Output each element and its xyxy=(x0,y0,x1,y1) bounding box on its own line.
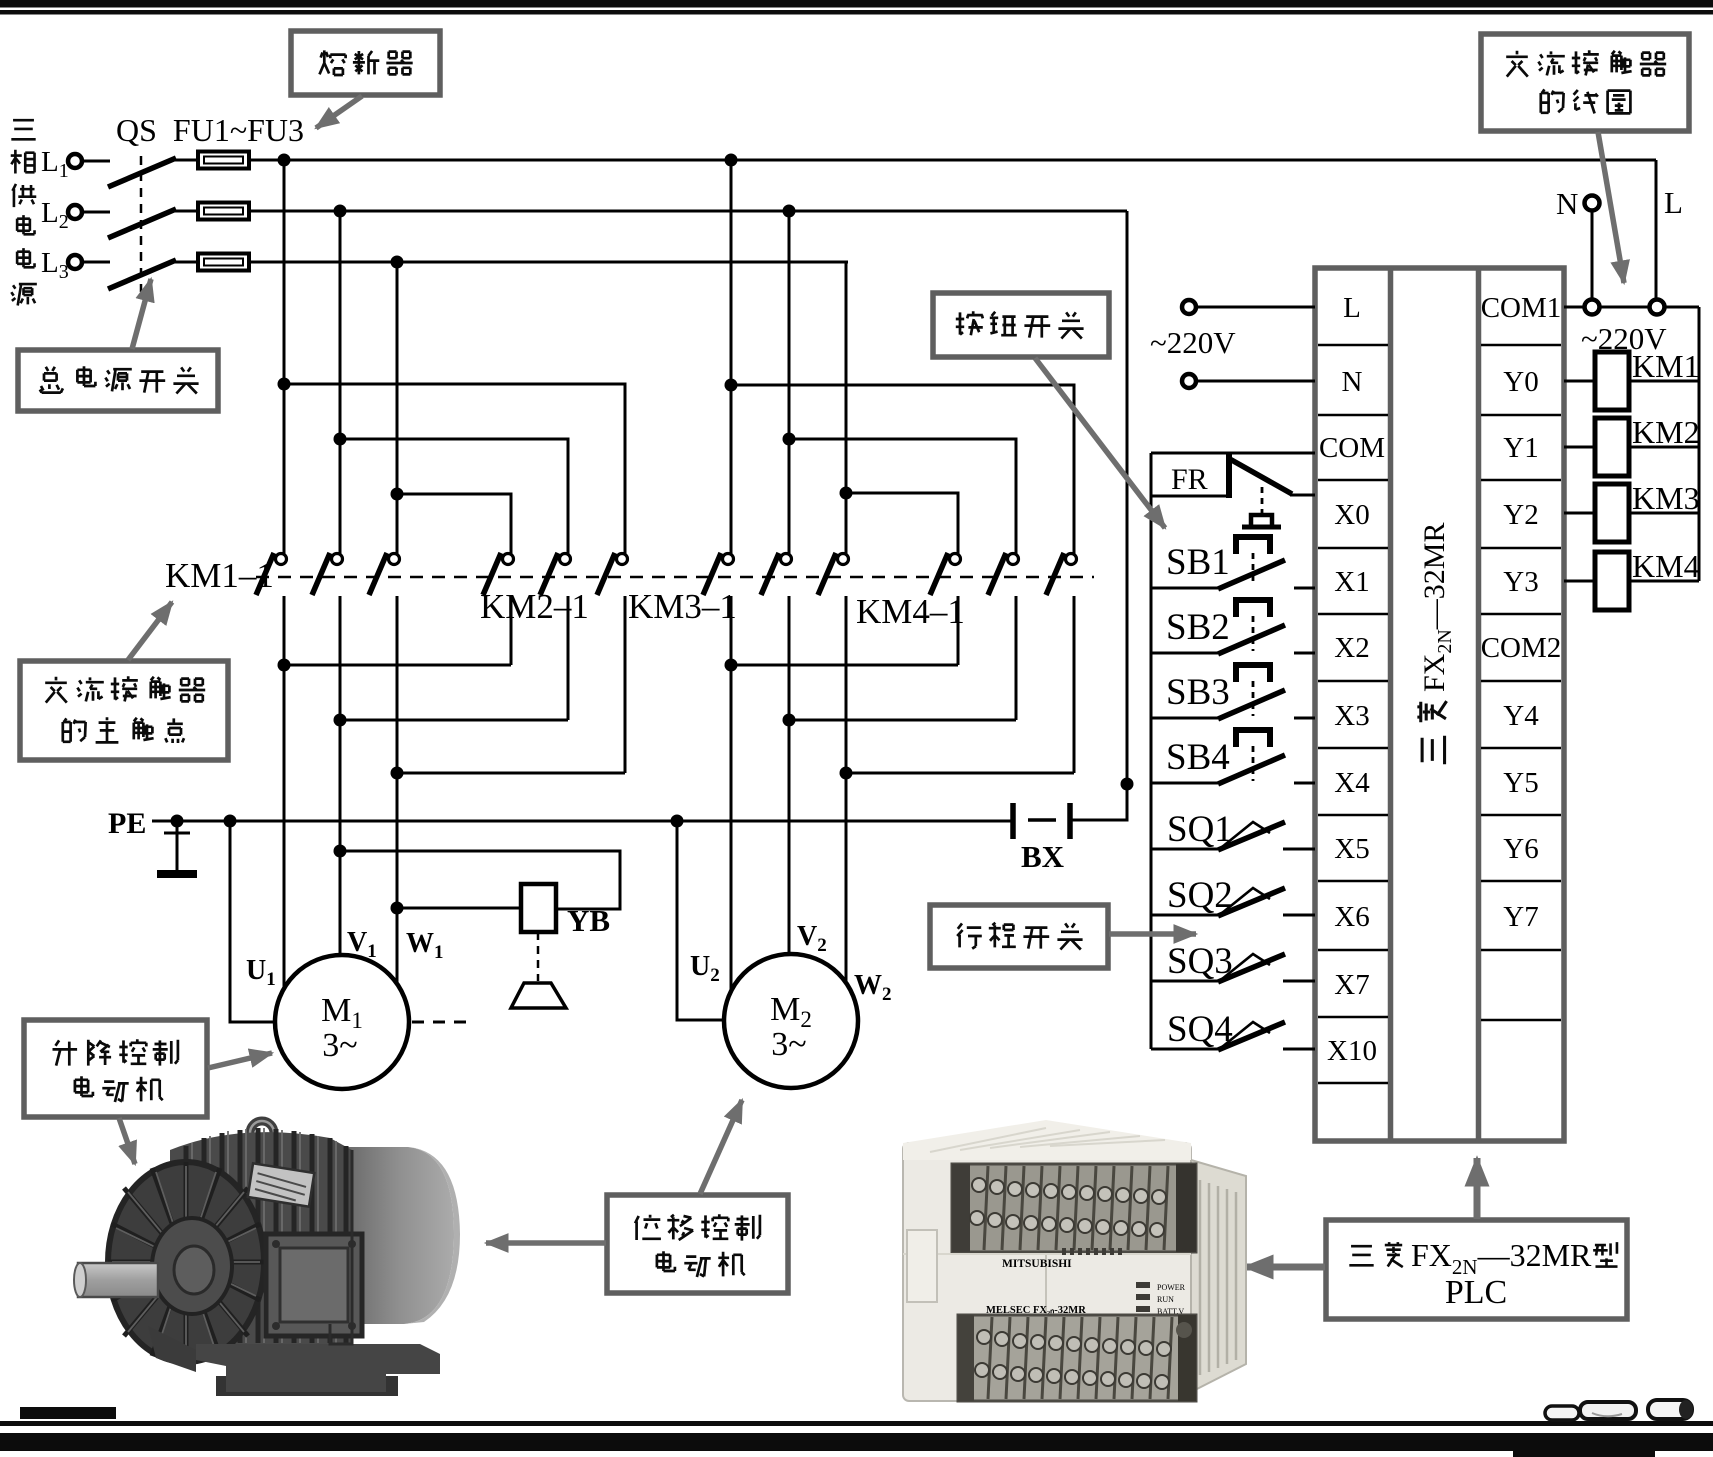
wire link M1 phase B xyxy=(340,719,568,722)
bottom black bar xyxy=(0,1433,1713,1451)
arrow fuse callout xyxy=(316,96,362,128)
svg-text:X10: X10 xyxy=(1327,1035,1377,1067)
junction PE M2 xyxy=(671,815,684,828)
button SB2 link dashed xyxy=(1252,616,1255,651)
contactor linkage dashed line xyxy=(256,576,1094,579)
callout box contactor coil xyxy=(1481,34,1689,131)
arrow contactor coil callout xyxy=(1598,132,1624,283)
terminal COM1 L circle xyxy=(1650,300,1665,315)
PLC photo top terminal strip xyxy=(952,1164,1196,1252)
chalk piece 2 xyxy=(1580,1402,1636,1419)
wire COM to bus xyxy=(1151,452,1315,455)
svg-text:X0: X0 xyxy=(1334,499,1369,531)
wire PE to M1 frame xyxy=(230,821,277,1022)
wire Y1 to KM2 xyxy=(1564,446,1595,449)
wire Y3 to KM4 xyxy=(1564,580,1595,583)
label text hoist motor line1 升降控制 xyxy=(53,1040,78,1065)
wire L2 drop to KM1-1 xyxy=(339,211,342,554)
relay FR post xyxy=(1226,454,1232,498)
svg-text:X5: X5 xyxy=(1334,833,1369,865)
svg-text:X2: X2 xyxy=(1334,632,1369,664)
switch QS pole 1 blade xyxy=(108,158,176,187)
terminal L3 xyxy=(68,255,82,269)
button SB1 blade xyxy=(1218,560,1285,589)
wire L2 terminal stub xyxy=(82,211,110,214)
brake YB armature dashed xyxy=(537,932,540,981)
wire link M1 phase C xyxy=(397,772,625,775)
limit contact BX middle dash xyxy=(1028,818,1056,822)
fuse FU3 xyxy=(198,254,249,271)
wire PE to M2 frame xyxy=(677,821,725,1020)
wire FR to X0 xyxy=(1290,494,1315,497)
motor photo terminal box xyxy=(266,1234,362,1336)
wire crossover M1 phase B xyxy=(340,439,568,554)
callout box PLC type xyxy=(1326,1220,1627,1319)
wire crossover M2 phase A xyxy=(731,385,1074,554)
wire BX to L2 riser xyxy=(1072,211,1127,820)
callout box push buttons xyxy=(933,293,1109,357)
coil KM1 xyxy=(1595,352,1629,410)
brake YB shoe xyxy=(511,983,566,1008)
svg-text:N: N xyxy=(1556,186,1578,221)
wire 220V N to PLC xyxy=(1196,380,1315,383)
svg-text:FR: FR xyxy=(1171,463,1208,496)
arrow displacement motor callout to photo xyxy=(486,1240,606,1246)
arrow hoist motor callout to symbol xyxy=(208,1053,272,1068)
wire Y2 to KM3 xyxy=(1564,512,1595,515)
bottom bar tab xyxy=(1513,1449,1655,1457)
wire below KM2-1 pole3 xyxy=(624,596,627,773)
contact KM3-1 pole2 xyxy=(781,554,792,565)
wire N drop xyxy=(1591,211,1594,300)
label text displacement motor line2 电动机 xyxy=(657,1251,675,1271)
motor M2 circle xyxy=(724,954,858,1088)
callout box displacement motor xyxy=(607,1195,788,1293)
switch SQ4 blade xyxy=(1218,1022,1285,1050)
motor photo nameplate xyxy=(248,1163,315,1206)
wire below KM3-1 pole2 xyxy=(788,596,791,954)
motor photo front fin disc xyxy=(108,1162,264,1362)
svg-text:Y4: Y4 xyxy=(1503,700,1539,732)
junction PE M1 xyxy=(224,815,237,828)
label text three-phase supply 三相供电电源 vertical xyxy=(11,120,35,139)
PLC output column row lines xyxy=(1481,345,1561,1020)
arrow PLC type callout to table xyxy=(1474,1158,1481,1219)
label text PLC type line1 三菱 and 型 xyxy=(1349,1246,1373,1265)
arrow PLC type callout to photo xyxy=(1245,1264,1325,1271)
button SB1 actuator xyxy=(1236,537,1270,554)
label text displacement motor line1 位移控制 xyxy=(635,1215,661,1240)
svg-text:Y6: Y6 xyxy=(1503,833,1538,865)
wire L1 terminal stub xyxy=(82,160,110,163)
svg-text:KM4–1: KM4–1 xyxy=(856,592,965,631)
label text hoist motor line2 电动机 xyxy=(75,1076,93,1096)
callout box travel switches xyxy=(930,905,1108,968)
button SB4 link dashed xyxy=(1252,746,1255,781)
svg-text:Y2: Y2 xyxy=(1503,499,1538,531)
ground PE symbol xyxy=(164,821,190,871)
svg-text:RUN: RUN xyxy=(1157,1295,1174,1304)
arrow contactor contacts callout xyxy=(128,602,172,660)
contact KM1-1 pole1 xyxy=(276,554,287,565)
junction YB W1 tap xyxy=(391,902,404,915)
button SB3 blade xyxy=(1218,690,1285,719)
junction BX riser xyxy=(1121,778,1134,791)
junction crossover C1 xyxy=(391,488,404,501)
svg-text:SB2: SB2 xyxy=(1166,607,1230,648)
junction link A2 xyxy=(725,659,738,672)
junction crossover A1 xyxy=(278,378,291,391)
arrow main switch callout xyxy=(132,279,151,349)
svg-text:FX2N—32MR: FX2N—32MR xyxy=(1418,523,1456,693)
terminal COM1 N circle xyxy=(1585,300,1600,315)
label text contactor contacts line2 的主触点 xyxy=(63,718,86,741)
wire SB1 to X1 xyxy=(1294,587,1315,590)
junction PE ground xyxy=(171,815,184,828)
svg-text:PLC: PLC xyxy=(1445,1274,1507,1311)
wire link M1 phase A xyxy=(284,664,511,667)
wire QS to FU1 xyxy=(174,159,198,162)
wire bus L1 xyxy=(249,159,1656,162)
svg-text:SQ3: SQ3 xyxy=(1167,941,1233,982)
chalk piece 3 xyxy=(1648,1400,1693,1419)
svg-text:SB1: SB1 xyxy=(1166,542,1230,583)
wire SQ1 left xyxy=(1151,848,1218,851)
wire SQ3 left xyxy=(1151,980,1218,983)
switch QS pole 2 blade xyxy=(108,209,176,238)
terminal L2 xyxy=(68,205,82,219)
terminal L1 xyxy=(68,154,82,168)
svg-text:X7: X7 xyxy=(1334,969,1369,1001)
svg-text:SQ4: SQ4 xyxy=(1167,1009,1233,1050)
wire below KM3-1 pole3 xyxy=(845,596,848,983)
label text main switch 总电源开关 xyxy=(40,367,63,393)
chalk piece 1 xyxy=(1545,1406,1579,1420)
wire link M2 phase A xyxy=(731,664,958,667)
wire coil return bus xyxy=(1698,307,1701,581)
svg-text:MITSUBISHI: MITSUBISHI xyxy=(1002,1258,1072,1270)
callout box hoist motor xyxy=(24,1020,207,1117)
svg-text:POWER: POWER xyxy=(1157,1283,1186,1292)
wire crossover M2 phase B xyxy=(789,439,1016,554)
junction link A1 xyxy=(278,659,291,672)
wire L1 drop to KM3-1 xyxy=(730,160,733,554)
brake YB tap wire W1 xyxy=(397,907,521,910)
svg-text:SQ2: SQ2 xyxy=(1167,875,1233,916)
motor photo shaft xyxy=(78,1263,158,1297)
wire bus L3 xyxy=(249,261,848,264)
junction crossover C2 xyxy=(840,487,853,500)
switch QS pole 3 blade xyxy=(108,260,176,289)
fuse FU2 xyxy=(198,203,249,220)
svg-text:Y7: Y7 xyxy=(1503,901,1538,933)
wire L3 drop to KM1-1 xyxy=(396,262,399,554)
arrow travel switches callout xyxy=(1109,931,1196,937)
junction link B2 xyxy=(783,714,796,727)
relay FR link dashed xyxy=(1261,487,1264,513)
switch SQ2 blade xyxy=(1218,888,1285,916)
svg-text:KM2–1: KM2–1 xyxy=(480,587,589,626)
svg-text:SB3: SB3 xyxy=(1166,672,1230,713)
wire SB2 left xyxy=(1151,652,1218,655)
button SB4 actuator xyxy=(1236,730,1270,747)
wire crossover M1 phase C xyxy=(397,494,511,554)
button SB1 mushroom cap xyxy=(1251,515,1272,527)
junction link B1 xyxy=(334,714,347,727)
wire below KM3-1 pole1 xyxy=(730,596,733,990)
svg-text:COM: COM xyxy=(1319,432,1385,464)
limit contact BX plates xyxy=(1013,803,1070,839)
junction crossover B2 xyxy=(783,433,796,446)
wire input common bus xyxy=(1150,453,1153,1049)
label text travel switches 行程开关 xyxy=(957,923,982,948)
eraser mark bottom left xyxy=(20,1407,116,1419)
button SB3 actuator xyxy=(1236,665,1270,682)
coil KM2 xyxy=(1595,418,1629,476)
PLC photo LED rows xyxy=(1062,1248,1150,1329)
wire QS to FU3 xyxy=(174,261,198,264)
svg-text:KM1: KM1 xyxy=(1632,348,1700,384)
svg-text:PE: PE xyxy=(108,807,146,840)
svg-text:L: L xyxy=(1343,292,1361,324)
contact KM3-1 pole1 xyxy=(723,554,734,565)
motor M1 shaft dashes xyxy=(412,1021,474,1024)
wire bus L2 xyxy=(249,210,1127,213)
svg-text:KM1–1: KM1–1 xyxy=(165,556,274,595)
svg-text:L: L xyxy=(1664,185,1683,220)
motor photo eye bolt xyxy=(250,1121,274,1145)
wire SQ2 left xyxy=(1151,914,1218,917)
wire QS to FU2 xyxy=(174,210,198,213)
wire KM1 to bus xyxy=(1629,380,1699,383)
contact KM2-1 pole1 xyxy=(503,554,514,565)
relay FR blade xyxy=(1228,458,1292,494)
wire PE rail xyxy=(152,820,1013,823)
svg-text:X1: X1 xyxy=(1334,566,1369,598)
wire below KM4-1 pole2 xyxy=(1015,596,1018,720)
arrow displacement motor callout to symbol xyxy=(700,1100,742,1194)
terminal 220V N circle xyxy=(1182,374,1196,388)
PLC photo left recess xyxy=(907,1230,937,1302)
wire below KM4-1 pole1 xyxy=(957,596,960,665)
switch SQ1 lever xyxy=(1222,822,1270,847)
junction link C2 xyxy=(840,767,853,780)
motor M1 circle xyxy=(275,955,409,1089)
junction link C1 xyxy=(391,767,404,780)
callout box contactor main contacts xyxy=(20,661,228,760)
PLC middle column vertical type text xyxy=(1417,523,1456,765)
PLC photo body xyxy=(903,1143,1191,1401)
junction crossover A2 xyxy=(725,379,738,392)
wire L2 drop to KM3-1 xyxy=(788,211,791,554)
wire L3 terminal stub xyxy=(82,261,110,264)
junction crossover B1 xyxy=(334,433,347,446)
label text contactor contacts line1 交流接触器 xyxy=(45,677,67,703)
wire Y0 to KM1 xyxy=(1564,380,1595,383)
terminal 220V L circle xyxy=(1182,300,1196,314)
wire SB4 to X4 xyxy=(1294,782,1315,785)
motor photo body with fins xyxy=(170,1132,352,1344)
wire COM1 middle xyxy=(1600,306,1649,309)
label text contactor coil line2 的线圈 xyxy=(1541,89,1564,112)
svg-text:Y5: Y5 xyxy=(1503,767,1538,799)
svg-text:COM2: COM2 xyxy=(1481,632,1562,664)
svg-text:YB: YB xyxy=(567,903,610,938)
wire SB3 left xyxy=(1151,717,1218,720)
wire crossover M1 phase A xyxy=(284,384,625,554)
junction YB V1 tap xyxy=(334,845,347,858)
wire below KM2-1 pole2 xyxy=(567,596,570,720)
wire below KM1-1 pole2 xyxy=(339,596,342,955)
switch SQ3 lever xyxy=(1222,954,1270,979)
label text fuse 熔断器 xyxy=(320,50,346,75)
contact KM3-1 pole3 xyxy=(838,554,849,565)
callout box main switch xyxy=(18,350,218,411)
contact KM2-1 pole3 xyxy=(617,554,628,565)
PLC FX2N-32MR terminal table outer frame xyxy=(1315,268,1564,1141)
wire L1 drop to KM1-1 xyxy=(283,160,286,554)
top rule line xyxy=(0,10,1713,15)
svg-text:Y0: Y0 xyxy=(1503,366,1538,398)
wire 220V L to PLC xyxy=(1196,306,1315,309)
button SB2 blade xyxy=(1218,625,1285,654)
relay FR wire lower xyxy=(1151,495,1227,498)
wire below KM1-1 pole3 xyxy=(396,596,399,984)
PLC input column row lines xyxy=(1318,345,1388,1083)
svg-text:KM3–1: KM3–1 xyxy=(628,587,737,626)
contact KM4-1 pole2 xyxy=(1008,554,1019,565)
svg-text:X6: X6 xyxy=(1334,901,1369,933)
switch QS linkage dashed xyxy=(140,156,143,292)
arrow push buttons callout xyxy=(1035,358,1165,528)
svg-text:KM2: KM2 xyxy=(1632,414,1700,450)
svg-text:SQ1: SQ1 xyxy=(1167,809,1233,850)
wire SB2 to X2 xyxy=(1294,652,1315,655)
svg-text:FX2N—32MR: FX2N—32MR xyxy=(1411,1237,1592,1279)
wire SQ4 to X10 xyxy=(1283,1048,1315,1051)
PLC photo top angled cap xyxy=(903,1120,1191,1160)
wire SB4 left xyxy=(1151,782,1218,785)
svg-text:KM3: KM3 xyxy=(1632,480,1700,516)
contact KM2-1 pole2 xyxy=(560,554,571,565)
coil KM3 xyxy=(1595,484,1629,542)
PLC photo right side face xyxy=(1191,1160,1246,1392)
PLC photo status labels xyxy=(1157,1283,1186,1338)
wire link M2 phase B xyxy=(789,719,1016,722)
label text contactor coil line1 交流接触器 xyxy=(1506,51,1528,77)
junction L2 branch1 xyxy=(334,205,347,218)
switch SQ2 lever xyxy=(1222,888,1270,913)
svg-text:SB4: SB4 xyxy=(1166,737,1230,778)
label text push buttons 按钮开关 xyxy=(956,311,983,335)
wire below KM2-1 pole1 xyxy=(510,596,513,665)
svg-text:X4: X4 xyxy=(1334,767,1370,799)
junction L3 branch1 xyxy=(391,256,404,269)
button SB3 link dashed xyxy=(1252,681,1255,716)
wire SB1 left xyxy=(1151,587,1218,590)
svg-text:3~: 3~ xyxy=(771,1026,806,1063)
switch SQ1 blade xyxy=(1218,822,1285,850)
wire COM1 to coil bus xyxy=(1665,306,1699,309)
wire below KM4-1 pole3 xyxy=(1073,596,1076,773)
wire SB3 to X3 xyxy=(1294,717,1315,720)
svg-text:3~: 3~ xyxy=(322,1027,357,1064)
arrow hoist motor callout to photo xyxy=(119,1118,135,1164)
PLC photo face split line xyxy=(1045,1254,1047,1318)
wire COM1 stub xyxy=(1564,306,1584,309)
svg-text:Y1: Y1 xyxy=(1503,432,1538,464)
svg-text:~220V: ~220V xyxy=(1150,325,1236,360)
switch SQ3 blade xyxy=(1218,954,1285,982)
svg-text:COM1: COM1 xyxy=(1481,292,1562,324)
wire KM4 to bus xyxy=(1629,580,1699,583)
motor photo base feet xyxy=(196,1344,440,1392)
wire below KM1-1 pole1 xyxy=(283,596,286,989)
fuse FU1 xyxy=(198,152,249,169)
wire SQ1 to X5 xyxy=(1283,848,1315,851)
wire SQ3 to X7 xyxy=(1283,980,1315,983)
svg-text:X3: X3 xyxy=(1334,700,1369,732)
svg-text:N: N xyxy=(1342,366,1363,398)
PLC photo bottom terminal strip xyxy=(958,1315,1196,1401)
motor photo xyxy=(74,1121,460,1396)
junction L1 branch1 xyxy=(278,154,291,167)
svg-text:KM4: KM4 xyxy=(1632,548,1700,584)
wire link M2 phase C xyxy=(846,772,1074,775)
junction L2 branch2 xyxy=(783,205,796,218)
wire KM2 to bus xyxy=(1629,446,1699,449)
wire L3 drop to KM3-1 xyxy=(845,262,848,554)
contact KM4-1 pole1 xyxy=(950,554,961,565)
PLC photo xyxy=(903,1120,1246,1401)
junction L1 branch2 xyxy=(725,154,738,167)
wire KM3 to bus xyxy=(1629,512,1699,515)
wire crossover M2 phase C xyxy=(846,493,958,554)
contact KM4-1 pole3 xyxy=(1066,554,1077,565)
top black bar xyxy=(0,0,1713,8)
wire L1 to L terminal xyxy=(1655,160,1658,300)
wire SQ2 to X6 xyxy=(1283,914,1315,917)
motor photo rear bell xyxy=(330,1147,454,1324)
coil KM4 xyxy=(1595,552,1629,610)
svg-text:Y3: Y3 xyxy=(1503,566,1538,598)
contact KM1-1 pole2 xyxy=(332,554,343,565)
wire SQ4 left xyxy=(1151,1048,1218,1051)
svg-text:QS FU1~FU3: QS FU1~FU3 xyxy=(116,112,304,148)
contact KM1-1 pole3 xyxy=(389,554,400,565)
bottom tray rule line xyxy=(0,1421,1713,1426)
callout box fuse xyxy=(291,31,440,95)
button SB1 link dashed xyxy=(1252,553,1255,586)
brake YB coil xyxy=(521,884,556,932)
button SB4 blade xyxy=(1218,755,1285,784)
button SB2 actuator xyxy=(1236,600,1270,617)
svg-text:BX: BX xyxy=(1021,839,1065,874)
terminal N top circle xyxy=(1585,196,1600,211)
brake YB tap wire V1 xyxy=(340,851,620,909)
switch SQ4 lever xyxy=(1222,1022,1270,1047)
